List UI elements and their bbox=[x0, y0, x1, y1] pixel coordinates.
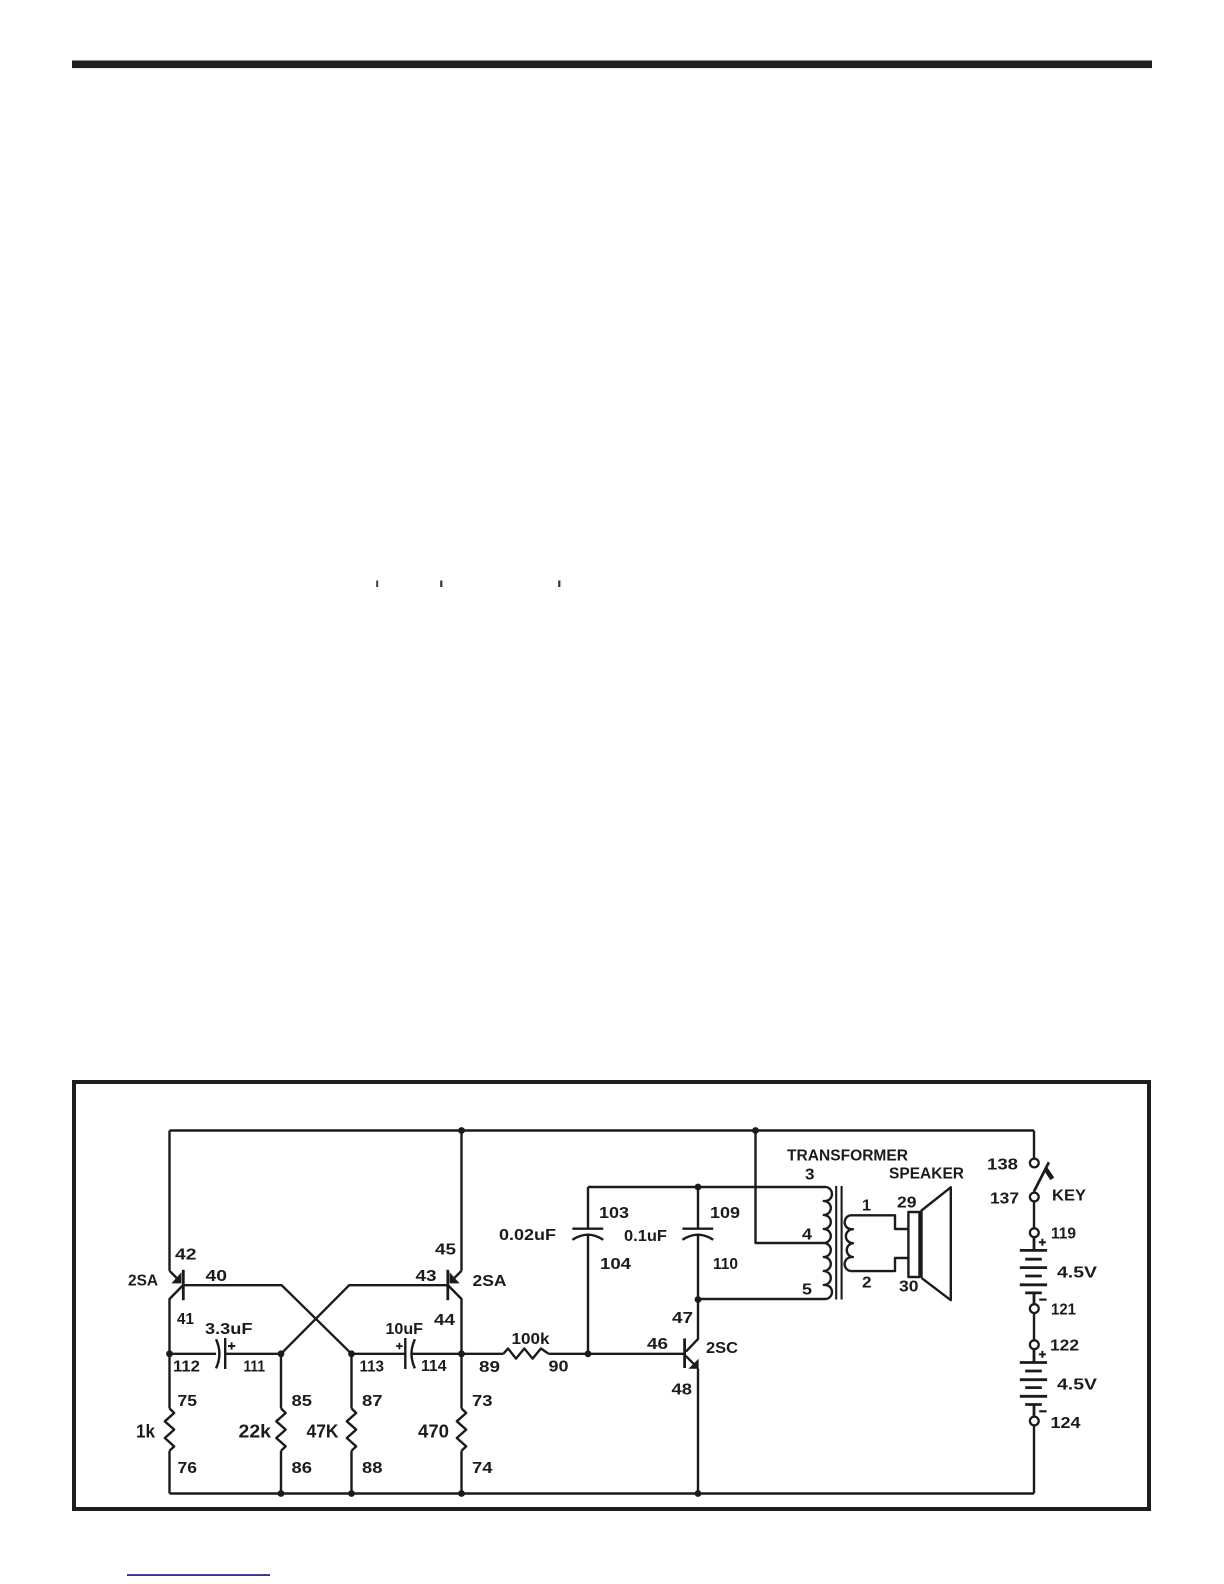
svg-text:42: 42 bbox=[175, 1247, 197, 1264]
switch S1 KEY terminal 137 bbox=[1030, 1193, 1039, 1202]
node 90 junction bbox=[585, 1350, 592, 1357]
svg-text:47: 47 bbox=[672, 1310, 693, 1327]
wire node90 to Q3 base bbox=[588, 1353, 684, 1355]
svg-text:29: 29 bbox=[897, 1195, 917, 1212]
node ground at R3 bbox=[348, 1490, 355, 1497]
svg-text:KEY: KEY bbox=[1052, 1188, 1087, 1205]
node ground at R4 bbox=[458, 1490, 465, 1497]
svg-text:103: 103 bbox=[599, 1205, 629, 1222]
svg-text:121: 121 bbox=[1051, 1302, 1076, 1319]
svg-text:137: 137 bbox=[990, 1191, 1019, 1208]
svg-text:46: 46 bbox=[647, 1336, 668, 1353]
node 114 bbox=[458, 1350, 465, 1357]
battery B1 terminal 119 bbox=[1030, 1228, 1039, 1237]
svg-text:0.02uF: 0.02uF bbox=[499, 1227, 556, 1244]
svg-text:2SC: 2SC bbox=[706, 1340, 738, 1357]
wire switch to battery B1 bbox=[1033, 1202, 1035, 1229]
svg-text:45: 45 bbox=[435, 1242, 456, 1259]
transformer T1 primary winding bbox=[824, 1187, 832, 1299]
resistor R1 1k with leads bbox=[165, 1354, 174, 1494]
wire cross-couple node113 to Q1 base bbox=[184, 1285, 351, 1354]
svg-text:114: 114 bbox=[421, 1358, 447, 1375]
svg-text:3: 3 bbox=[805, 1167, 815, 1184]
battery B1 terminal 121 bbox=[1030, 1304, 1039, 1313]
wire secondary pin 1 to speaker bbox=[851, 1215, 909, 1229]
node 113 bbox=[348, 1350, 355, 1357]
wire top rail corner down to switch bbox=[1033, 1131, 1035, 1159]
capacitor C3 0.02uF with vertical leads bbox=[572, 1187, 603, 1354]
wire node112 to C1 bbox=[170, 1353, 217, 1355]
wire C1 to node111 bbox=[225, 1353, 281, 1355]
wire node113 to C2 bbox=[352, 1353, 406, 1355]
svg-text:104: 104 bbox=[600, 1256, 631, 1273]
battery B1 4.5V cells bbox=[1020, 1237, 1047, 1304]
wire top rail to transformer pin 4 tap bbox=[756, 1131, 824, 1244]
wire Q1 emitter drop bbox=[168, 1131, 170, 1271]
svg-text:10uF: 10uF bbox=[386, 1321, 424, 1338]
node ground at R2 bbox=[278, 1490, 285, 1497]
svg-text:119: 119 bbox=[1051, 1226, 1076, 1243]
wire battery B1 to battery B2 bbox=[1033, 1313, 1035, 1340]
svg-text:4: 4 bbox=[802, 1227, 812, 1244]
svg-text:1: 1 bbox=[862, 1198, 871, 1215]
svg-text:4.5V: 4.5V bbox=[1057, 1265, 1097, 1282]
speaker SP1 bbox=[908, 1187, 950, 1300]
wire Q2 emitter drop bbox=[460, 1131, 462, 1271]
svg-text:2SA: 2SA bbox=[473, 1273, 507, 1290]
wire battery B2 to ground rail bbox=[1033, 1426, 1035, 1494]
svg-text:43: 43 bbox=[416, 1268, 437, 1285]
switch S1 KEY terminal 138 bbox=[1030, 1159, 1039, 1168]
svg-text:3.3uF: 3.3uF bbox=[205, 1321, 253, 1338]
svg-text:85: 85 bbox=[292, 1393, 313, 1410]
svg-text:2SA: 2SA bbox=[128, 1273, 158, 1290]
svg-text:47K: 47K bbox=[307, 1422, 339, 1442]
svg-text:100k: 100k bbox=[512, 1331, 550, 1348]
svg-text:113: 113 bbox=[360, 1359, 385, 1376]
battery B2 terminal 124 bbox=[1030, 1417, 1039, 1426]
capacitor C1 3.3uF bbox=[216, 1338, 235, 1369]
resistor R2 22k with leads bbox=[276, 1354, 285, 1494]
battery B1 plus mark bbox=[1039, 1239, 1046, 1246]
svg-text:0.1uF: 0.1uF bbox=[624, 1228, 667, 1245]
wire C2 to node114 bbox=[412, 1353, 462, 1355]
transformer T1 core bbox=[836, 1186, 841, 1300]
switch S1 KEY blade and knob bbox=[1034, 1162, 1052, 1191]
svg-text:48: 48 bbox=[672, 1382, 693, 1399]
svg-text:41: 41 bbox=[177, 1311, 194, 1328]
wire ground bottom rail bbox=[170, 1492, 1035, 1494]
resistor R3 47K with leads bbox=[347, 1354, 356, 1494]
wire node114 to R5 bbox=[462, 1353, 504, 1355]
transistor Q2 2SA (PNP) bbox=[448, 1270, 462, 1354]
svg-text:111: 111 bbox=[244, 1359, 266, 1376]
node top rail at transformer tap bbox=[752, 1127, 759, 1134]
battery B2 4.5V cells bbox=[1020, 1349, 1047, 1416]
svg-text:74: 74 bbox=[472, 1460, 493, 1477]
svg-text:109: 109 bbox=[710, 1205, 740, 1222]
svg-text:4.5V: 4.5V bbox=[1057, 1377, 1097, 1394]
svg-text:90: 90 bbox=[549, 1359, 569, 1376]
svg-text:122: 122 bbox=[1050, 1338, 1079, 1355]
svg-text:87: 87 bbox=[362, 1393, 383, 1410]
svg-text:1k: 1k bbox=[136, 1422, 156, 1442]
wire secondary pin 2 to speaker bbox=[851, 1258, 909, 1271]
node 111 bbox=[278, 1350, 285, 1357]
svg-text:5: 5 bbox=[802, 1282, 812, 1299]
svg-text:89: 89 bbox=[479, 1359, 500, 1376]
svg-text:2: 2 bbox=[862, 1275, 872, 1292]
battery B2 minus mark bbox=[1039, 1410, 1046, 1412]
node 112 bbox=[166, 1350, 173, 1357]
svg-text:112: 112 bbox=[173, 1359, 200, 1376]
svg-text:73: 73 bbox=[472, 1393, 493, 1410]
wire R5 to node90 bbox=[548, 1353, 588, 1355]
svg-text:110: 110 bbox=[713, 1256, 738, 1273]
transistor Q1 2SA (PNP) bbox=[170, 1270, 184, 1354]
node C4 top junction bbox=[695, 1184, 702, 1191]
node top rail at Q2 bbox=[458, 1127, 465, 1134]
svg-text:75: 75 bbox=[178, 1393, 198, 1410]
svg-text:22k: 22k bbox=[239, 1422, 273, 1442]
node 47 collector junction bbox=[695, 1296, 702, 1303]
svg-text:124: 124 bbox=[1051, 1415, 1081, 1432]
resistor R4 470 with leads bbox=[457, 1354, 466, 1494]
svg-text:40: 40 bbox=[206, 1268, 228, 1285]
svg-text:SPEAKER: SPEAKER bbox=[889, 1166, 964, 1183]
svg-text:470: 470 bbox=[418, 1422, 449, 1442]
wire V+ top rail bbox=[170, 1129, 1035, 1131]
svg-text:138: 138 bbox=[987, 1157, 1018, 1174]
wire C3/C4 top to transformer pin 3 bbox=[588, 1186, 826, 1188]
svg-text:44: 44 bbox=[434, 1312, 455, 1329]
battery B2 terminal 122 bbox=[1030, 1340, 1039, 1349]
resistor R5 100k bbox=[504, 1349, 549, 1359]
svg-text:TRANSFORMER: TRANSFORMER bbox=[787, 1148, 908, 1165]
svg-text:76: 76 bbox=[178, 1460, 198, 1477]
svg-text:86: 86 bbox=[292, 1460, 313, 1477]
svg-text:88: 88 bbox=[362, 1460, 383, 1477]
wire node47 to transformer pin 5 bbox=[698, 1298, 826, 1300]
capacitor C4 0.1uF with vertical leads bbox=[682, 1187, 713, 1300]
transformer T1 secondary winding bbox=[845, 1215, 853, 1271]
battery B2 plus mark bbox=[1039, 1351, 1046, 1358]
svg-text:30: 30 bbox=[899, 1279, 919, 1296]
transistor Q3 2SC (NPN) bbox=[685, 1300, 699, 1494]
capacitor C2 10uF bbox=[396, 1338, 415, 1369]
wire cross-couple node111 to Q2 base bbox=[281, 1285, 447, 1354]
battery B1 minus mark bbox=[1039, 1298, 1046, 1300]
node ground at Q3 emitter bbox=[695, 1490, 702, 1497]
